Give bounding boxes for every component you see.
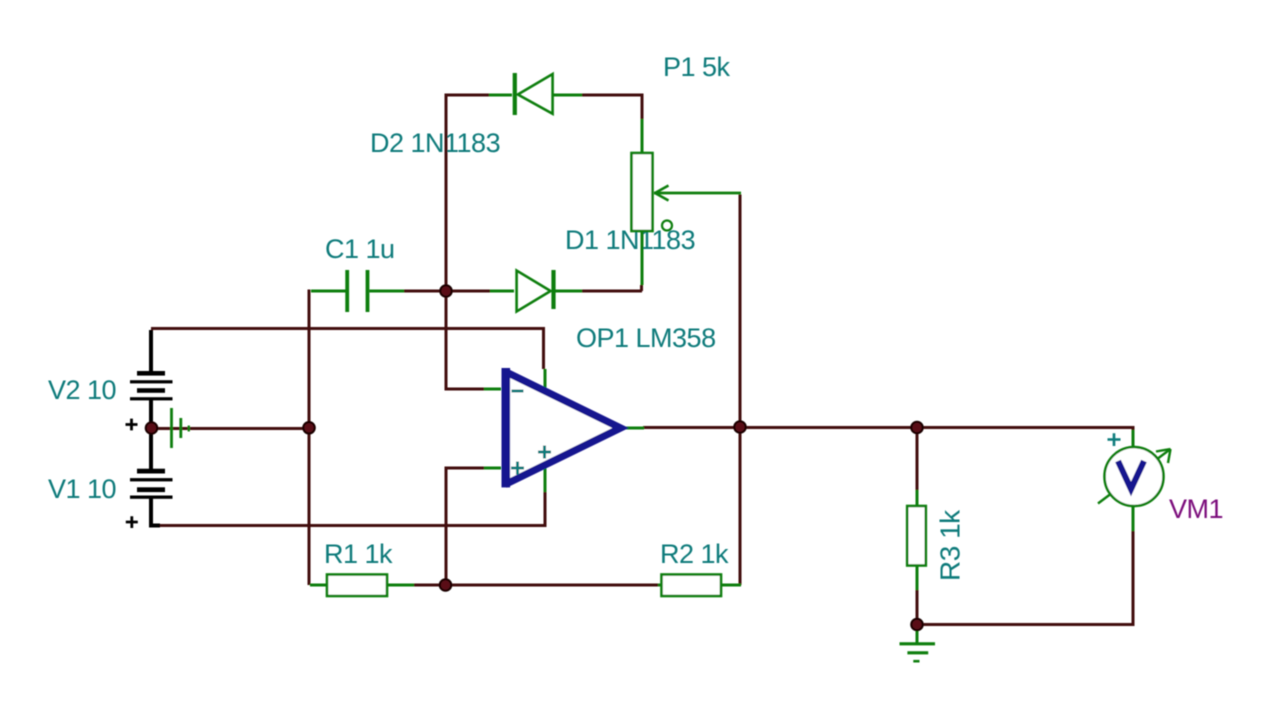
battery V2 plus mark — [126, 419, 138, 431]
node left riser junction — [303, 422, 314, 433]
wire voltmeter bottom return to ground node — [917, 530, 1135, 625]
op-amp plus supply mark — [538, 446, 551, 459]
svg-text:R3 1k: R3 1k — [935, 509, 966, 581]
wire pot wiper riser down through output node to R2 right corner — [739, 195, 742, 586]
wire inverting input riser from node A — [446, 293, 484, 389]
resistor R1 — [310, 575, 414, 597]
ground at R3 bottom — [900, 627, 936, 661]
ground at battery midpoint — [172, 408, 189, 448]
capacitor C1 — [311, 270, 404, 312]
wire output row to voltmeter corner — [740, 428, 1133, 431]
resistor R3 — [907, 490, 926, 590]
voltmeter VM1 — [1098, 430, 1171, 531]
svg-text:C1 1u: C1 1u — [325, 234, 395, 264]
svg-text:OP1 LM358: OP1 LM358 — [576, 323, 716, 353]
diode D2 — [489, 73, 582, 115]
wire R1 row — [414, 584, 658, 587]
op-amp minus input mark — [512, 390, 524, 393]
svg-text:D2 1N1183: D2 1N1183 — [370, 128, 500, 158]
wire battery midpoint node to left riser — [151, 427, 309, 430]
resistor R2 — [658, 575, 741, 597]
wire C1 right lead to node A — [404, 290, 446, 293]
op-amp V+ pin — [544, 369, 547, 389]
wire op-amp output to output node — [643, 426, 737, 429]
battery V2 — [130, 330, 173, 469]
op-amp output lead — [620, 427, 644, 430]
svg-text:P1 5k: P1 5k — [663, 52, 731, 82]
wire non-inverting input drop to R1-R2 node — [446, 468, 484, 583]
op-amp OP1 — [484, 368, 644, 492]
wire left riser x=309 from C1 lead down to R1 — [308, 290, 311, 586]
wire R3 top lead upper segment — [916, 429, 919, 490]
node R3 top junction — [911, 422, 922, 433]
node R1-R2 junction — [440, 579, 451, 590]
wire D2 right segment to pot branch corner — [582, 95, 642, 119]
node R3 bottom ground junction — [911, 619, 922, 630]
battery V1 plus mark — [126, 516, 138, 528]
wire positive supply rail from battery top to op-amp V+ pin — [151, 329, 544, 370]
potentiometer P1 — [632, 119, 742, 285]
wire negative supply rail from battery bottom to op-amp V- pin — [158, 492, 545, 526]
wire D1 row left segment from node A — [452, 290, 490, 293]
node op-amp output junction — [734, 421, 745, 432]
svg-text:R2 1k: R2 1k — [660, 539, 729, 569]
svg-text:R1 1k: R1 1k — [324, 539, 393, 569]
svg-text:V2 10: V2 10 — [48, 375, 116, 405]
diode D1 — [490, 270, 582, 312]
node battery midpoint — [146, 422, 157, 433]
wire D2 left riser from diode row down to node A — [446, 95, 489, 288]
svg-text:V1 10: V1 10 — [48, 474, 116, 504]
svg-text:VM1: VM1 — [1169, 494, 1223, 524]
node A diode-capacitor junction — [440, 285, 451, 296]
battery V1 — [130, 434, 173, 526]
op-amp V- pin — [544, 464, 547, 492]
op-amp plus input mark — [511, 462, 524, 475]
svg-text:D1 1N1183: D1 1N1183 — [565, 225, 695, 255]
wire D1 row right segment to pot bottom corner — [582, 285, 642, 291]
wire R3 bottom lead lower segment to ground node — [916, 589, 919, 624]
op-amp input leads — [484, 389, 501, 468]
